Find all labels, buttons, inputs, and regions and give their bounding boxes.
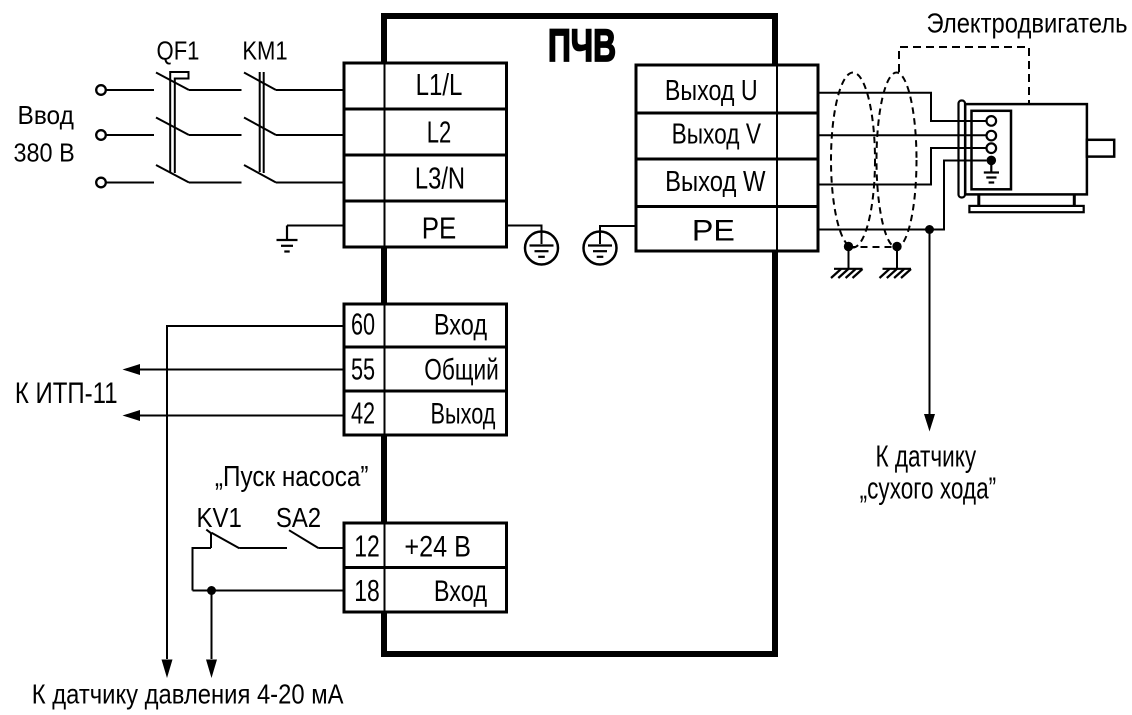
switch SA2	[289, 530, 318, 548]
motor shaft	[1087, 140, 1114, 157]
wire branch left vertical	[193, 548, 212, 591]
ground symbol shield 1 (hatched)	[831, 269, 863, 278]
svg-text:ПЧВ: ПЧВ	[548, 20, 616, 71]
svg-text:L2: L2	[427, 115, 452, 150]
svg-text:PE: PE	[422, 211, 457, 246]
wire shield 2 to ground	[896, 247, 898, 269]
wire PE input to ground	[287, 225, 344, 227]
wire terminal 42	[139, 415, 344, 417]
wire output U	[818, 93, 987, 121]
wire PE to earth circle left	[507, 226, 542, 245]
wire input phase 3	[106, 182, 155, 184]
wire shield 1 to ground	[848, 247, 850, 269]
ground symbol shield 2 (hatched)	[880, 269, 912, 278]
svg-text:„сухого хода”: „сухого хода”	[860, 470, 997, 505]
relay contact KV1	[206, 530, 239, 549]
terminal block power input (L1/L L2 L3/N PE)	[344, 63, 507, 247]
svg-text:К датчику: К датчику	[875, 439, 976, 474]
circuit breaker QF1 blade pole 2	[156, 118, 189, 136]
svg-text:К ИТП-11: К ИТП-11	[15, 377, 118, 410]
shielded cable ellipse 2	[877, 73, 917, 248]
node shield 2	[892, 242, 901, 251]
svg-text:„Пуск насоса”: „Пуск насоса”	[215, 461, 369, 493]
wire input phase 2	[106, 134, 155, 136]
frequency converter enclosure U1 (ПЧВ)	[384, 16, 775, 654]
motor M1	[959, 101, 1115, 213]
shielded cable ellipse 1	[831, 73, 875, 248]
svg-text:PE: PE	[692, 214, 735, 247]
svg-text:KM1: KM1	[242, 35, 287, 65]
node junction pressure sensor branch	[207, 586, 216, 595]
wire QF1 to KM1 phase 1	[189, 89, 242, 91]
svg-text:QF1: QF1	[157, 35, 200, 65]
arrow down to pressure sensor 2	[206, 660, 217, 679]
motor terminal PE node	[987, 156, 997, 166]
svg-text:Выход W: Выход W	[665, 166, 766, 198]
wire output W	[818, 148, 987, 185]
wire dashed cable to motor label link	[899, 47, 1029, 104]
svg-text:42: 42	[351, 395, 375, 430]
terminal block output (Выход U V W PE)	[636, 65, 818, 251]
input terminal 3	[96, 178, 106, 188]
motor internal ground symbol	[984, 160, 999, 182]
protective earth circle right	[584, 232, 617, 265]
svg-text:Вход: Вход	[434, 308, 487, 341]
terminal block digital (12 18)	[344, 523, 507, 612]
motor leg left	[977, 194, 980, 206]
arrow to ITP-11 line 55	[123, 364, 141, 375]
svg-text:55: 55	[351, 351, 375, 386]
wire SA2 to terminal 12	[318, 547, 344, 549]
motor terminal box	[972, 111, 1012, 190]
node shield 1	[844, 242, 853, 251]
contactor KM1 blade pole 2	[244, 118, 276, 136]
motor leg right	[1073, 194, 1076, 206]
input terminal 1	[96, 85, 106, 95]
wire PE junction down to dry-run sensor	[929, 230, 931, 415]
circuit breaker QF1 blade pole 3	[156, 165, 189, 183]
svg-text:12: 12	[354, 529, 380, 564]
svg-text:Общий: Общий	[424, 353, 499, 386]
wire terminal 55	[139, 369, 344, 371]
svg-text:+24 В: +24 В	[404, 531, 471, 564]
wire output V	[818, 134, 987, 136]
circuit breaker QF1 blade pole 1	[156, 73, 189, 91]
svg-text:L3/N: L3/N	[415, 161, 465, 196]
svg-text:18: 18	[354, 573, 380, 608]
arrow to dry-run sensor	[924, 414, 935, 432]
motor body	[965, 104, 1087, 194]
arrow to ITP-11 line 42	[123, 410, 141, 421]
motor terminal U	[987, 116, 997, 126]
input terminal 2	[96, 130, 106, 140]
svg-text:L1/L: L1/L	[416, 67, 463, 102]
wire QF1 to KM1 phase 3	[189, 182, 242, 184]
ground symbol input PE	[277, 226, 298, 252]
svg-text:Электродвигатель: Электродвигатель	[927, 7, 1128, 38]
motor terminal W	[987, 143, 997, 153]
wire dashed shield bottom link	[849, 246, 898, 248]
arrow down to pressure sensor 1	[162, 660, 173, 679]
wire earth circle right to output PE	[600, 226, 636, 244]
wire terminal 18	[193, 590, 345, 592]
svg-text:Вход: Вход	[434, 575, 487, 608]
motor base plate	[969, 206, 1083, 212]
wire QF1 to KM1 phase 2	[189, 134, 242, 136]
wire terminal 60	[167, 326, 344, 659]
protective earth circle left	[525, 232, 558, 265]
motor terminal V	[987, 131, 997, 141]
circuit breaker QF1 linkage bar with latch hook	[170, 72, 188, 173]
wire KV1 to SA2	[239, 547, 287, 549]
svg-text:Выход U: Выход U	[665, 75, 758, 107]
contactor KM1 blade pole 1	[244, 73, 276, 91]
wire junction down to pressure sensor 2	[211, 591, 213, 660]
wire input phase 1	[106, 89, 155, 91]
motor flange	[959, 101, 966, 198]
wire KM1 to L2	[276, 134, 344, 136]
contactor KM1 blade pole 3	[244, 165, 276, 183]
wire KM1 to L1/L	[276, 89, 344, 91]
wire output PE	[818, 161, 987, 230]
svg-text:60: 60	[351, 306, 375, 341]
svg-text:К датчику давления 4-20 мА: К датчику давления 4-20 мА	[32, 679, 344, 710]
svg-text:KV1: KV1	[197, 502, 242, 533]
svg-text:Ввод: Ввод	[18, 100, 74, 130]
wire KM1 to L3/N	[276, 182, 344, 184]
terminal block analog (60 55 42)	[344, 304, 507, 435]
node PE junction	[925, 225, 934, 234]
svg-text:380 В: 380 В	[14, 138, 75, 168]
contactor KM1 linkage bar	[260, 72, 264, 173]
svg-text:SA2: SA2	[276, 502, 321, 533]
svg-text:Выход: Выход	[431, 397, 496, 430]
svg-text:Выход V: Выход V	[672, 119, 762, 151]
